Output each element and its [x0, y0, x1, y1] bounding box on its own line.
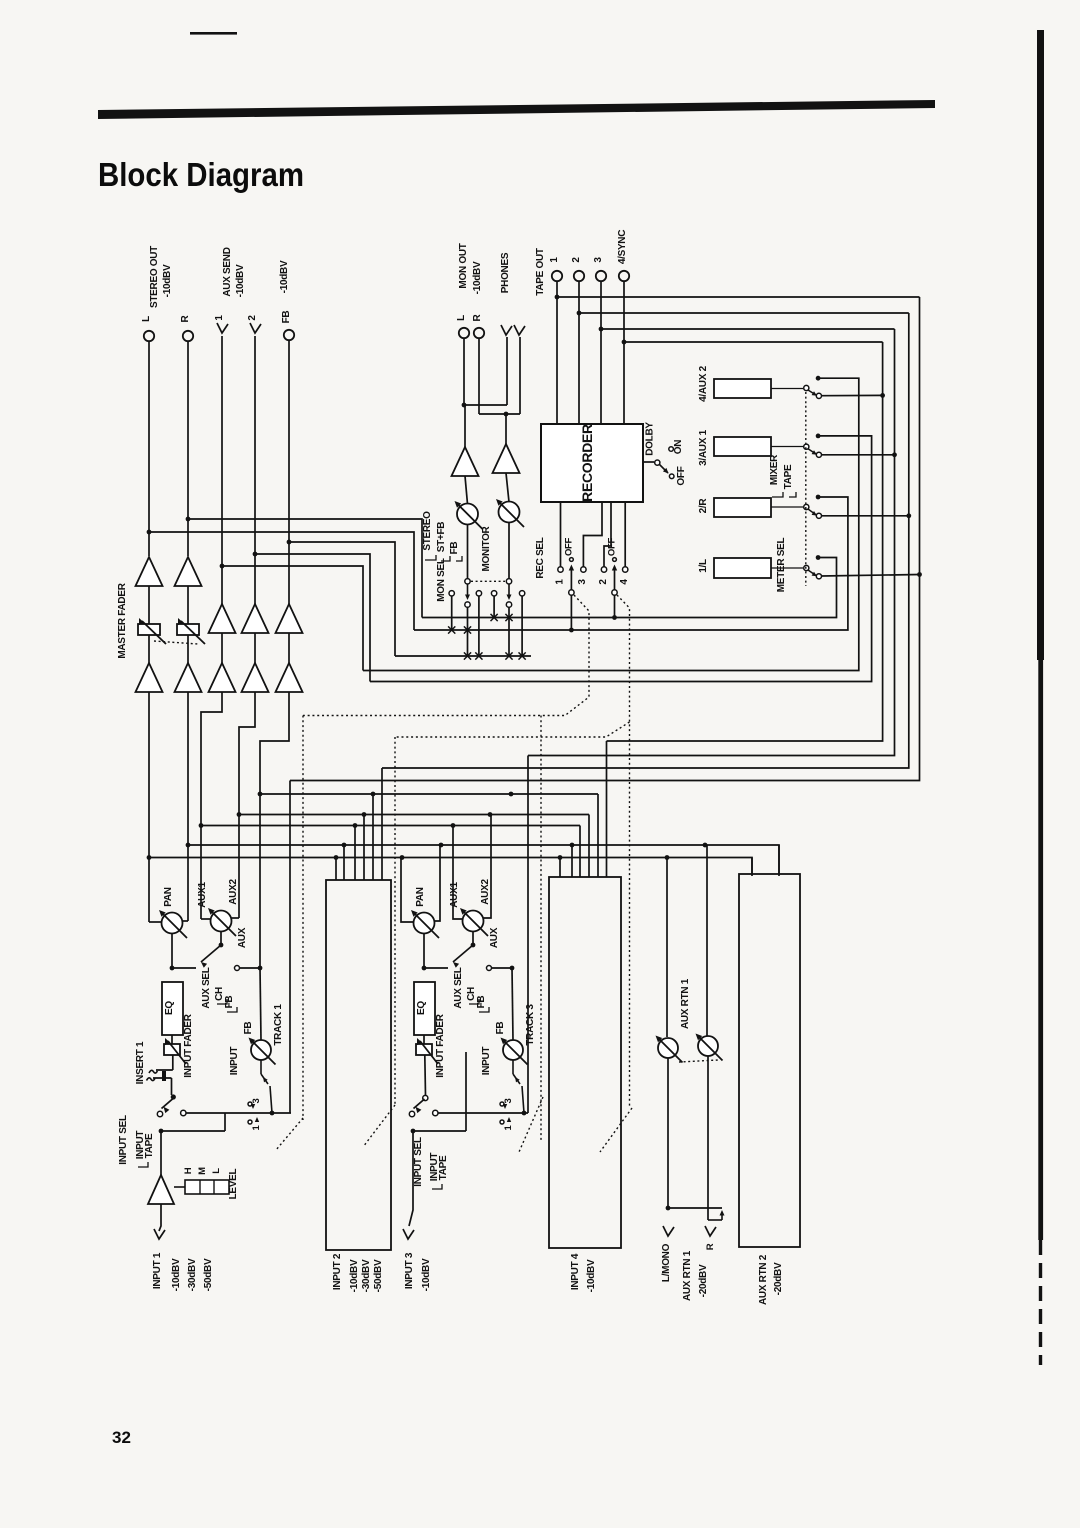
svg-text:-50dBV: -50dBV	[203, 1258, 214, 1291]
wire ch2 aux2 stem	[363, 815, 365, 881]
svg-text:INSERT 1: INSERT 1	[135, 1041, 146, 1084]
contact meter1 lower	[816, 574, 821, 579]
wire mon amp L to pot	[465, 476, 468, 504]
wire monsel b stub	[467, 607, 469, 656]
wire tape2 branch right	[579, 312, 909, 314]
contact mon sel f	[519, 591, 524, 596]
terminal STEREO OUT R	[183, 331, 193, 341]
pot monitor level R	[499, 502, 520, 523]
svg-text:MON SEL: MON SEL	[436, 558, 447, 602]
svg-text:-10dBV: -10dBV	[586, 1259, 597, 1292]
svg-text:3: 3	[577, 579, 588, 585]
svg-text:AUX RTN 1: AUX RTN 1	[680, 978, 691, 1029]
node r bus ch4	[570, 843, 575, 848]
wire aux rtn1 L down	[667, 1058, 669, 1208]
svg-text:FB: FB	[243, 1022, 254, 1035]
terminal MON OUT R	[474, 328, 484, 338]
wire L fader to amp	[148, 635, 150, 663]
amp fb mix	[276, 663, 303, 692]
switch rec sel 13 wiper	[569, 590, 574, 595]
wire recorder pin4 down	[624, 502, 626, 567]
wire meter1 tape link	[822, 575, 920, 577]
svg-text:2: 2	[571, 257, 582, 263]
contact ch3 track 1 pos	[500, 1120, 504, 1124]
pot ch3 AUX	[463, 911, 484, 932]
wire aux1 column	[221, 336, 223, 604]
contact meter4 lower	[816, 393, 821, 398]
wire monitor pot gang dotted	[471, 580, 505, 582]
wire tape1 return	[290, 297, 920, 781]
wire meter2 lead	[771, 506, 803, 508]
wire tape2 return	[382, 313, 909, 768]
node tape2 branch	[577, 311, 582, 316]
pot ch3 PAN	[414, 913, 435, 934]
wire fb inter-amp	[288, 633, 290, 663]
wire ch3 eq to fader	[423, 1035, 425, 1044]
svg-text:AUX1: AUX1	[197, 882, 208, 908]
wire aux rtn2 L stem into box	[751, 858, 753, 875]
node meter1 tape	[917, 572, 922, 577]
svg-text:INPUT 4: INPUT 4	[570, 1253, 581, 1290]
wire ch3 pan R stem	[433, 845, 440, 921]
svg-text:L: L	[456, 315, 467, 321]
wire ch3 input row riser	[465, 1113, 467, 1131]
svg-text:OFF: OFF	[676, 466, 687, 485]
wire rec enable slash track1 dotted	[276, 1118, 303, 1150]
svg-text:METER SEL: METER SEL	[776, 538, 787, 593]
pot ch1 FB monitor	[251, 1040, 271, 1060]
wire ch4 L stem	[559, 858, 561, 878]
wire aux rtn1 link	[668, 1207, 722, 1209]
switch meter2 arm	[808, 509, 816, 515]
wire ch1 insert to sel	[171, 1078, 173, 1095]
wire tape1 branch right	[557, 296, 920, 298]
node L tap	[147, 530, 152, 535]
node ch3 track join	[522, 1111, 527, 1116]
svg-text:FB: FB	[449, 542, 460, 555]
amp stereo L output	[136, 557, 163, 586]
node ch3 fb feed	[510, 966, 515, 971]
wire aux rtn2 R stem into box	[778, 845, 780, 874]
wire FB tap to monitor bus	[289, 542, 395, 656]
pot AUX RTN 1 R	[698, 1036, 718, 1056]
jack AUX RTN 1 L/MONO	[663, 1226, 674, 1236]
wire mon pot L wiper down	[467, 524, 469, 578]
svg-text:H: H	[183, 1167, 194, 1174]
contact meter1 pivot	[804, 565, 809, 570]
wire mon/phones L join	[464, 404, 507, 406]
wire L mix bus	[149, 858, 752, 877]
node mon R	[504, 412, 509, 417]
node meter3 upper	[816, 434, 821, 439]
node aux1 bus master	[199, 823, 204, 828]
svg-text:AUX SEND: AUX SEND	[222, 247, 233, 296]
wire ch3 input row	[413, 1130, 466, 1132]
node ch1 fb feed	[258, 966, 263, 971]
node aux2 tap	[253, 552, 258, 557]
wire mon R arrow	[508, 584, 510, 597]
svg-text:3: 3	[251, 1098, 262, 1103]
svg-text:PAN: PAN	[163, 887, 174, 907]
wire L amp to fader	[148, 586, 150, 624]
node meter3 tape	[892, 452, 897, 457]
amp R mix	[175, 663, 202, 692]
svg-text:TRACK 3: TRACK 3	[525, 1004, 536, 1046]
svg-text:3: 3	[593, 257, 604, 263]
pot ch1 PAN	[162, 913, 183, 934]
wire stereo R column	[187, 341, 189, 556]
svg-text:INPUT 1: INPUT 1	[152, 1252, 163, 1289]
svg-text:1/L: 1/L	[698, 559, 709, 573]
svg-text:ON: ON	[673, 440, 684, 454]
wire R fader to amp	[187, 635, 189, 663]
wire ch1 eq to fader	[171, 1035, 173, 1044]
recorder box U1	[541, 424, 643, 502]
svg-text:INPUT SEL: INPUT SEL	[118, 1115, 129, 1165]
contact meter4 pivot	[804, 385, 809, 390]
svg-text:AUX SEL: AUX SEL	[453, 967, 464, 1008]
node FB tap	[287, 540, 292, 545]
wire phones R down	[519, 337, 521, 414]
terminal TAPE OUT 4/SYNC	[619, 271, 629, 281]
switch meter4 arm	[808, 390, 816, 395]
wire R join to amp	[505, 414, 507, 444]
node r bus auxrtn	[703, 843, 708, 848]
node aux rtn1 junction	[666, 1206, 671, 1211]
node meter4 upper	[816, 376, 821, 381]
wire track1 playback drop	[289, 781, 291, 1114]
svg-text:L: L	[141, 316, 152, 322]
wire ch1 aux pot right stem	[231, 917, 239, 919]
node r bus master	[186, 843, 191, 848]
wire fb mix amp jog down	[260, 692, 289, 968]
amp monitor R	[493, 444, 520, 473]
insert jack ch1 INSERT 1 return	[153, 1077, 172, 1079]
node rec24 bus	[612, 615, 617, 620]
node l bus auxrtn	[665, 855, 670, 860]
wire meter1 mixer link	[422, 558, 837, 618]
node fb bus ch2	[371, 792, 376, 797]
svg-text:AUX2: AUX2	[228, 879, 239, 905]
terminal MON OUT L	[459, 328, 469, 338]
svg-text:-30dBV: -30dBV	[187, 1258, 198, 1291]
wire ch2 R stem	[343, 845, 345, 880]
svg-text:STEREO OUT: STEREO OUT	[149, 246, 160, 308]
svg-text:AUX RTN 1: AUX RTN 1	[682, 1250, 693, 1301]
amp stereo R output	[175, 557, 202, 586]
svg-text:4/AUX 2: 4/AUX 2	[698, 365, 709, 401]
svg-text:AUX: AUX	[489, 927, 500, 948]
svg-text:AUX1: AUX1	[449, 882, 460, 908]
meter 4/AUX 2	[714, 379, 771, 398]
wire ch4 R stem	[571, 845, 573, 877]
junction marks on monitor buses	[491, 614, 498, 621]
node mon L	[462, 403, 467, 408]
contact ch3 input	[409, 1111, 414, 1116]
wire monsel d stub	[493, 596, 495, 618]
bracket meter sel	[772, 492, 783, 497]
wire AUX2 mix bus	[239, 814, 589, 816]
switch ch3 input sel	[423, 1095, 428, 1100]
svg-text:-10dBV: -10dBV	[235, 264, 246, 297]
jack INPUT 3	[403, 1229, 414, 1239]
wire meter3 tape link	[822, 454, 895, 456]
wire ch1 mic sel to amp	[160, 1131, 162, 1175]
switch ch1 track marks	[251, 1104, 255, 1109]
svg-text:M: M	[197, 1167, 208, 1175]
amp aux2 send	[242, 604, 269, 633]
wire ch2 aux1 stem	[354, 826, 356, 881]
block ch1 EQ	[162, 982, 183, 1035]
wire rec enable 2-4 dotted	[617, 595, 630, 1108]
wire meter2 mixer link	[414, 497, 848, 630]
svg-text:2/R: 2/R	[698, 498, 709, 514]
svg-text:-10dBV: -10dBV	[171, 1258, 182, 1291]
wire ch2 L stem	[335, 858, 337, 881]
wire aux1 tap to meter bus	[222, 566, 363, 671]
svg-text:FB: FB	[224, 996, 235, 1009]
svg-text:1: 1	[555, 579, 566, 585]
block INPUT 4 channel strip	[549, 877, 621, 1248]
node aux1 bus ch2	[353, 823, 358, 828]
contact rec off 24	[613, 558, 617, 562]
node ch1 eq out	[170, 966, 175, 971]
wire rec enable slash track4 dotted	[600, 1108, 632, 1152]
wire mon L down	[463, 338, 465, 405]
wire rec enable slash track3 dotted	[519, 1097, 543, 1152]
wire stereo L column	[148, 341, 150, 556]
wire recorder pin1 down	[560, 502, 562, 567]
wire aux2 tap to meter bus	[255, 554, 370, 682]
wire R mix bus	[188, 845, 779, 876]
svg-text:FB: FB	[281, 311, 292, 324]
node ch3 eq out	[422, 966, 427, 971]
svg-text:INPUT: INPUT	[481, 1047, 492, 1076]
terminal TAPE OUT 1	[552, 271, 562, 281]
contact dolby off	[669, 474, 674, 479]
arrow aux rtn1 normalled	[721, 1212, 723, 1220]
svg-text:OFF: OFF	[607, 537, 618, 556]
svg-text:INPUT 2: INPUT 2	[332, 1253, 343, 1290]
wire meter4 tape link	[822, 394, 883, 396]
thick header rule	[98, 100, 935, 119]
wire ch1 fb pot feed	[260, 968, 261, 1040]
contact rec sel 3	[581, 567, 586, 572]
wire ch4 aux2 stem	[588, 815, 590, 878]
svg-text:PAN: PAN	[415, 887, 426, 907]
wire ch3 fb contact lead	[492, 967, 512, 969]
contact mon sel a	[449, 591, 454, 596]
wire fader gang dotted	[154, 641, 198, 644]
node aux2 bus master	[237, 812, 242, 817]
insert jack ch1 INSERT 1 send	[156, 1069, 173, 1071]
wire monsel e stub	[508, 607, 510, 656]
wire ch1 fb contact lead	[240, 967, 260, 969]
node l bus ch4	[558, 855, 563, 860]
svg-text:Block Diagram: Block Diagram	[98, 156, 304, 193]
svg-text:MONITOR: MONITOR	[481, 525, 492, 571]
wire rec enable 1-3 dotted	[303, 595, 589, 716]
meter 2/R	[714, 498, 771, 517]
switch ch3 aux sel	[472, 932, 474, 945]
pot ch3 FB monitor	[503, 1040, 523, 1060]
node meter2 upper	[816, 495, 821, 500]
wire meter3 lead	[771, 446, 803, 448]
wire dolby stub	[643, 461, 654, 463]
node aux2 bus ch3	[488, 812, 493, 817]
wire ch3 tape row	[438, 1112, 528, 1114]
wire mon R down	[478, 338, 480, 414]
wire tape4 branch right	[624, 341, 883, 343]
svg-text:TAPE: TAPE	[144, 1133, 155, 1158]
svg-text:INPUT: INPUT	[229, 1047, 240, 1076]
wire mon/phones R join	[479, 413, 520, 415]
terminal STEREO OUT L	[144, 331, 154, 341]
switch meter3 arm	[808, 449, 816, 454]
bracket ch3 input sel	[432, 1184, 442, 1189]
svg-text:EQ: EQ	[164, 1001, 175, 1015]
wire ch1 pan input	[171, 934, 173, 969]
contact rec sel 4	[623, 567, 628, 572]
contact mon L lower	[465, 602, 470, 607]
pot ch1 AUX	[211, 911, 232, 932]
wire meter4 mixer link	[363, 378, 859, 670]
svg-text:MIXER: MIXER	[769, 454, 780, 485]
switch dolby arm	[660, 465, 669, 474]
node fb bus ch3	[509, 792, 514, 797]
contact dolby on	[669, 447, 674, 452]
contact rec sel 1	[558, 567, 563, 572]
contact meter3 lower	[816, 452, 821, 457]
node l bus master	[147, 855, 152, 860]
contact mon sel c	[476, 591, 481, 596]
wire ch1 fader to insert	[172, 1055, 174, 1070]
wire ch3 fb pot feed	[512, 968, 513, 1040]
wire rec13 wiper to bus	[570, 596, 572, 631]
svg-text:-10dBV: -10dBV	[162, 264, 173, 297]
wire aux2 inter-amp	[254, 633, 256, 663]
svg-text:4: 4	[619, 579, 630, 585]
wire L join to amp	[464, 405, 466, 447]
wire aux rtn1 R stem	[706, 845, 708, 1036]
node meter1 upper	[816, 555, 821, 560]
svg-text:INPUT SEL: INPUT SEL	[413, 1137, 424, 1187]
node rec13 bus	[569, 628, 574, 633]
pot AUX RTN 1 L	[658, 1038, 678, 1058]
small dash mark top	[190, 32, 237, 35]
contact meter3 pivot	[804, 444, 809, 449]
svg-text:REC SEL: REC SEL	[535, 537, 546, 578]
bracket mon sel labels	[425, 555, 436, 560]
node ch3 input node	[411, 1129, 416, 1134]
wire ch3 pan L stem	[401, 858, 414, 923]
wire R amp to fader	[187, 586, 189, 624]
svg-text:TAPE OUT: TAPE OUT	[535, 248, 546, 296]
terminal TAPE OUT 3	[596, 271, 606, 281]
switch meter1 arm	[808, 570, 816, 576]
switch ch3 track marks	[503, 1104, 507, 1109]
wire tape3 return	[528, 329, 895, 756]
wire amp to level	[174, 1186, 185, 1188]
svg-text:TRACK 1: TRACK 1	[273, 1004, 284, 1046]
switch rec sel 24 wiper	[612, 590, 617, 595]
svg-text:-30dBV: -30dBV	[361, 1259, 372, 1292]
amp aux1 send	[209, 604, 236, 633]
wire ch1 tape row	[186, 1112, 291, 1114]
svg-text:-20dBV: -20dBV	[773, 1262, 784, 1295]
switch ch1 input sel	[171, 1094, 176, 1099]
wire monsel f stub	[521, 596, 523, 656]
contact dolby common	[655, 460, 660, 465]
svg-text:AUX RTN 2: AUX RTN 2	[758, 1254, 769, 1305]
wire L mix amp down to bus	[148, 692, 150, 922]
wire meter2 tape link	[822, 515, 909, 517]
wire ch3 input lead	[409, 1131, 413, 1226]
wire meter3 mixer link	[370, 436, 872, 682]
wire track3 playback drop	[527, 756, 529, 1114]
contact mon sel d	[491, 591, 496, 596]
svg-text:ST+FB: ST+FB	[436, 522, 447, 553]
wire aux1 inter-amp	[221, 633, 223, 663]
jack AUX SEND 2	[250, 323, 261, 333]
svg-text:R: R	[705, 1243, 716, 1250]
wire ch1 pan R stem	[181, 920, 188, 922]
wire tape1 down to recorder	[556, 281, 558, 424]
svg-text:R: R	[180, 314, 191, 322]
wire monsel a stub	[451, 596, 453, 630]
wire aux1 mix amp jog down	[201, 692, 222, 919]
svg-text:FB: FB	[476, 996, 487, 1009]
node r bus ch3	[439, 843, 444, 848]
bracket ch3 aux sel	[469, 999, 479, 1004]
node r bus ch2	[342, 843, 347, 848]
wire ch3 fader to sel	[424, 1055, 427, 1095]
wire ch3 pan input	[423, 934, 425, 969]
wire rec24 wiper to bus	[614, 596, 616, 618]
wire ch1 input row riser	[224, 1113, 226, 1131]
svg-text:PHONES: PHONES	[500, 252, 511, 293]
svg-text:MON OUT: MON OUT	[458, 243, 469, 288]
wire monsel c stub	[478, 596, 480, 656]
jack AUX SEND 1	[217, 323, 228, 333]
svg-text:R: R	[472, 313, 483, 321]
block ch3 EQ	[414, 982, 435, 1035]
contact mon wiper L top	[465, 579, 470, 584]
svg-text:TAPE: TAPE	[783, 464, 794, 489]
wire ch3 ch contact lead	[424, 967, 448, 969]
wire recorder pin3 down	[583, 502, 602, 567]
block INPUT 2 channel strip	[326, 880, 391, 1250]
node tape3 branch	[599, 327, 604, 332]
node tape4 branch	[622, 340, 627, 345]
contact ch3 aux sel fb	[487, 966, 492, 971]
wire aux rtn1 L stem	[666, 858, 668, 1038]
right edge scan bar	[1037, 30, 1044, 660]
contact ch1 aux sel fb	[235, 966, 240, 971]
svg-text:RECORDER: RECORDER	[579, 424, 595, 502]
jack PHONES R	[514, 325, 525, 335]
node meter4 tape	[880, 393, 885, 398]
jack INPUT 1	[154, 1229, 165, 1239]
node tape1 branch	[555, 295, 560, 300]
terminal TAPE OUT 2	[574, 271, 584, 281]
node ch1 input node	[159, 1129, 164, 1134]
wire ch1 pan L stem	[149, 921, 162, 923]
contact rec sel 2	[601, 567, 606, 572]
wire aux rtn1 R to arrow	[708, 1219, 722, 1221]
svg-text:1: 1	[549, 257, 560, 263]
wire tape3 branch right	[601, 328, 895, 330]
